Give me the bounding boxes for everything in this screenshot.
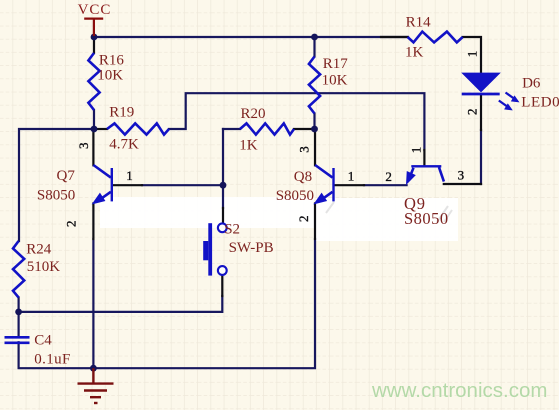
svg-text:10K: 10K bbox=[97, 67, 123, 83]
svg-text:LED0: LED0 bbox=[521, 94, 559, 110]
svg-text:www.cntronics.com: www.cntronics.com bbox=[371, 379, 547, 402]
svg-text:510K: 510K bbox=[27, 259, 61, 275]
svg-text:R16: R16 bbox=[99, 52, 125, 68]
svg-text:Q8: Q8 bbox=[294, 169, 312, 185]
svg-text:Q7: Q7 bbox=[57, 168, 76, 184]
svg-text:3: 3 bbox=[76, 143, 91, 150]
svg-text:SW-PB: SW-PB bbox=[229, 240, 274, 256]
svg-text:1: 1 bbox=[465, 51, 480, 58]
svg-text:1: 1 bbox=[126, 168, 133, 183]
svg-text:S8050: S8050 bbox=[404, 209, 449, 228]
svg-text:0.1uF: 0.1uF bbox=[34, 351, 71, 367]
svg-text:S2: S2 bbox=[224, 221, 240, 237]
svg-text:1K: 1K bbox=[239, 138, 258, 154]
svg-text:2: 2 bbox=[385, 169, 392, 184]
svg-text:2: 2 bbox=[465, 108, 480, 115]
svg-text:R17: R17 bbox=[323, 56, 349, 72]
svg-text:1: 1 bbox=[409, 147, 424, 154]
svg-text:3: 3 bbox=[297, 146, 312, 153]
svg-text:C4: C4 bbox=[34, 333, 52, 349]
svg-text:2: 2 bbox=[64, 221, 79, 228]
svg-text:VCC: VCC bbox=[78, 2, 112, 18]
svg-text:2: 2 bbox=[296, 215, 311, 222]
svg-text:D6: D6 bbox=[522, 75, 541, 91]
svg-text:R14: R14 bbox=[406, 15, 432, 31]
svg-text:S8050: S8050 bbox=[276, 188, 314, 204]
svg-text:1: 1 bbox=[348, 169, 355, 184]
svg-text:10K: 10K bbox=[322, 73, 348, 89]
svg-text:3: 3 bbox=[458, 167, 465, 182]
svg-text:4.7K: 4.7K bbox=[109, 137, 139, 153]
svg-text:R19: R19 bbox=[109, 104, 134, 120]
svg-text:R20: R20 bbox=[241, 106, 266, 122]
svg-text:R24: R24 bbox=[26, 241, 52, 257]
svg-text:S8050: S8050 bbox=[37, 188, 75, 204]
svg-text:1K: 1K bbox=[405, 45, 424, 61]
